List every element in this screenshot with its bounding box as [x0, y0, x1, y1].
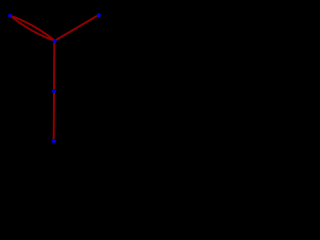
edge B-C: [55, 15, 99, 41]
edge A-B arc 1 (upper): [10, 16, 54, 41]
node A: [8, 14, 12, 18]
node E: [52, 139, 56, 143]
node D: [52, 89, 56, 93]
edge A-B arc 2 (lower): [10, 16, 54, 41]
node B: [53, 39, 57, 43]
background: [0, 0, 109, 158]
edge D-E: [53, 91, 55, 141]
edge B-D: [53, 41, 55, 91]
node C: [97, 13, 101, 17]
